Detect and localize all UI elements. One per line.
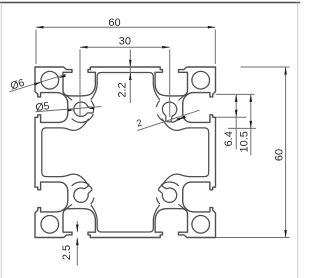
corner hole bottom-right (diam 6): [192, 216, 210, 234]
corner hole bottom-left (diam 6): [41, 216, 59, 234]
screw bosses with keyhole bores (diam 5): [74, 102, 88, 116]
profile outer contour with 8 T-slots: [35, 67, 216, 238]
dim 2.5 bottom wall: [76, 221, 78, 232]
dim 10.5: [250, 94, 252, 155]
inner cavity floor wall + stems: [91, 205, 160, 232]
leader 2 wall thickness: [138, 110, 200, 130]
extension lines right side: [216, 93, 255, 95]
inner cavity left wall + stems: [42, 119, 89, 186]
svg-text:2.2: 2.2: [117, 82, 129, 97]
dim 6.4: [235, 94, 237, 149]
svg-text:60: 60: [274, 149, 286, 161]
drawing frame left border: [0, 3, 2, 278]
svg-text:60: 60: [108, 17, 120, 29]
corner hole top-right (diam 6): [192, 71, 210, 89]
svg-text:6.4: 6.4: [223, 131, 235, 146]
svg-text:10.5: 10.5: [239, 131, 251, 152]
dim 60 top: line + extensions: [36, 26, 215, 28]
dim 2.2 wall thickness: [129, 50, 131, 104]
corner web bottom-right: [179, 204, 187, 211]
svg-text:2.5: 2.5: [61, 245, 73, 260]
dim 60 right: [285, 67, 287, 238]
corner hole top-left (diam 6): [41, 71, 59, 89]
inner cavity ceiling wall + stems: [91, 73, 160, 100]
inner cavity right wall + stems: [162, 119, 209, 186]
svg-text:30: 30: [119, 36, 131, 48]
leader diam 5 boss bore: [36, 107, 102, 112]
dim 30: line + extensions: [80, 46, 170, 48]
corner web top-right: [179, 93, 187, 100]
drawing frame top border: [0, 2, 300, 4]
corner web top-left: [64, 93, 72, 100]
corner web bottom-left: [64, 204, 72, 211]
svg-text:Ø5: Ø5: [35, 100, 51, 114]
drawing frame right border: [297, 3, 299, 278]
leader diam 6 corner hole: [10, 74, 67, 92]
